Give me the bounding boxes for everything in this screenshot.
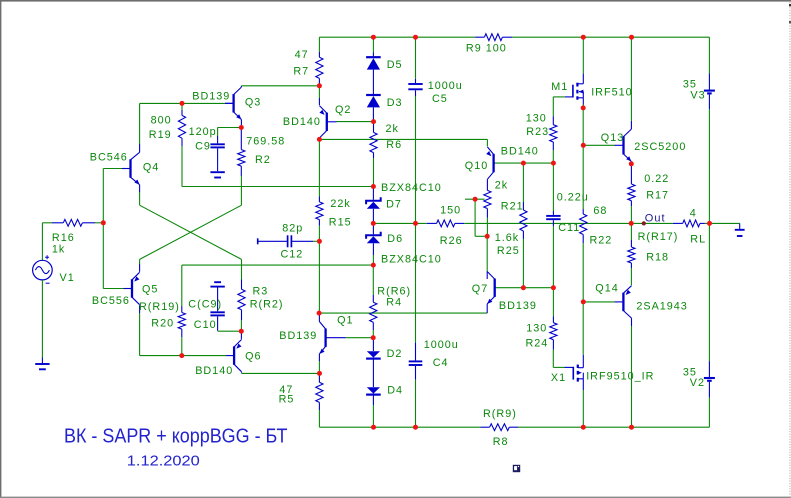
frame left border bbox=[0, 0, 1, 498]
label R(R19) bbox=[139, 301, 180, 313]
label 1.6k bbox=[495, 232, 519, 244]
wire out row left bbox=[373, 222, 427, 224]
node junction Q14 base bbox=[581, 299, 586, 304]
label BZX84C10 lower bbox=[381, 254, 442, 266]
svg-text:R4: R4 bbox=[386, 296, 402, 308]
label D7 bbox=[386, 198, 402, 210]
window icon bbox=[513, 465, 520, 472]
wire V rail middle bbox=[708, 109, 710, 361]
label C12 bbox=[281, 248, 304, 260]
wire wiper jog bbox=[475, 199, 487, 236]
label 2k R6 bbox=[386, 123, 399, 135]
mosfet M1 IRF510 bbox=[553, 37, 583, 104]
wire Q13 base bbox=[583, 144, 622, 146]
node junction top Q13 bbox=[629, 35, 634, 40]
svg-text:D5: D5 bbox=[387, 59, 403, 71]
svg-text:Q13: Q13 bbox=[601, 132, 624, 144]
label BD140 Q10 bbox=[501, 145, 539, 157]
svg-text:BC556: BC556 bbox=[92, 295, 130, 307]
label Q6 bbox=[245, 350, 261, 362]
label BC556 bbox=[92, 295, 130, 307]
resistor R20 bbox=[178, 265, 185, 356]
wire node to C9 bbox=[218, 127, 242, 129]
wire row y313 Q1 to Q7 emitter bbox=[319, 312, 487, 314]
label V3 bbox=[690, 89, 705, 101]
label 130 R23 bbox=[526, 112, 547, 124]
svg-text:R25: R25 bbox=[497, 245, 520, 257]
node junction gate-node bbox=[551, 161, 556, 166]
svg-text:47: 47 bbox=[295, 49, 309, 61]
node junction top D-chain bbox=[371, 35, 376, 40]
svg-text:82p: 82p bbox=[282, 222, 303, 234]
node junction D6 bottom bbox=[371, 263, 376, 268]
wire Q13 collector up bbox=[630, 37, 632, 129]
svg-text:2SC5200: 2SC5200 bbox=[634, 141, 686, 153]
wire Q14 collector down bbox=[631, 318, 633, 427]
label 0.22 R17 bbox=[644, 173, 669, 185]
resistor R26 bbox=[427, 220, 464, 227]
wire M1 gate down bbox=[552, 97, 554, 117]
wire R16 to node bbox=[95, 222, 103, 224]
wire Q10R21 to Q7 collector bbox=[486, 236, 488, 271]
label 4 RL bbox=[690, 207, 697, 219]
svg-text:BD140: BD140 bbox=[195, 365, 233, 377]
svg-text:R(R17): R(R17) bbox=[638, 231, 679, 243]
label R15 bbox=[329, 216, 352, 228]
wire M1src to Q13 node bbox=[582, 108, 584, 145]
wire row y186 R19bottom to D7 bbox=[182, 186, 374, 188]
svg-text:C12: C12 bbox=[281, 248, 304, 260]
wire Q2 base to node bbox=[337, 121, 374, 123]
battery V2 bbox=[704, 361, 715, 398]
svg-text:C5: C5 bbox=[432, 93, 448, 105]
node junction Q7base R25 bbox=[521, 285, 526, 290]
svg-text:Q4: Q4 bbox=[143, 161, 159, 173]
wire input node up to Q4 base bbox=[103, 169, 122, 223]
node junction Q13 emitter bbox=[629, 161, 634, 166]
resistor R19 bbox=[178, 103, 185, 186]
svg-text:R15: R15 bbox=[329, 216, 352, 228]
svg-text:R8: R8 bbox=[493, 436, 509, 448]
svg-text:BC546: BC546 bbox=[90, 152, 128, 164]
wire Q3 emitter to node bbox=[240, 120, 242, 128]
label R25 bbox=[497, 245, 520, 257]
label R9 100 bbox=[466, 42, 507, 54]
label Q7 bbox=[472, 283, 488, 295]
svg-text:D7: D7 bbox=[386, 198, 402, 210]
label M1 bbox=[551, 81, 568, 93]
svg-text:D3: D3 bbox=[387, 97, 403, 109]
label BD139 Q7 bbox=[499, 300, 537, 312]
svg-text:Q1: Q1 bbox=[337, 314, 353, 326]
svg-text:C4: C4 bbox=[433, 357, 449, 369]
wire Q4 emitter down bbox=[139, 185, 141, 206]
transistor Q1 BD139 bbox=[319, 322, 345, 354]
svg-text:R9 100: R9 100 bbox=[466, 42, 507, 54]
wire Q7 base row bbox=[496, 287, 553, 289]
transistor Q14 2SA1943 bbox=[622, 286, 631, 318]
svg-text:R7: R7 bbox=[293, 65, 309, 77]
label 35 V3 bbox=[683, 78, 697, 90]
svg-text:C9: C9 bbox=[195, 140, 211, 152]
svg-text:150: 150 bbox=[440, 204, 461, 216]
label R(R9) bbox=[483, 408, 517, 420]
wire Q5-collector to Q6 base bbox=[140, 355, 233, 357]
svg-text:2SA1943: 2SA1943 bbox=[636, 300, 687, 312]
capacitor C5 bbox=[408, 37, 422, 223]
label D6 bbox=[387, 233, 403, 245]
label Q14 bbox=[595, 283, 618, 295]
svg-text:2k: 2k bbox=[495, 179, 508, 191]
label R6 bbox=[386, 139, 402, 151]
label R16 bbox=[52, 232, 75, 244]
transistor Q7 BD139 bbox=[487, 272, 496, 304]
svg-text:R22: R22 bbox=[590, 234, 613, 246]
label Q1 bbox=[337, 314, 353, 326]
wiper R21 bbox=[465, 198, 485, 200]
resistor R9 bbox=[475, 34, 512, 41]
node junction R19 top bbox=[180, 101, 185, 106]
svg-text:R(R19): R(R19) bbox=[139, 301, 180, 313]
wire Q1 base to node bbox=[346, 337, 374, 339]
svg-text:V1: V1 bbox=[60, 272, 75, 284]
wire Q13 emitter bbox=[630, 162, 632, 164]
source V1 bbox=[33, 255, 53, 283]
transistor Q4 BC546 bbox=[122, 152, 140, 184]
svg-text:2k: 2k bbox=[386, 123, 399, 135]
wire C12node down bbox=[318, 241, 320, 313]
label Q10 bbox=[465, 160, 488, 172]
zener D7 bbox=[366, 187, 381, 224]
resistor R2 bbox=[238, 128, 245, 206]
resistor R25 1.6k bbox=[520, 163, 527, 288]
wire Q5 collector down bbox=[139, 305, 141, 355]
svg-text:BD140: BD140 bbox=[283, 116, 321, 128]
page boundary dashed line bbox=[789, 2, 791, 498]
svg-text:R16: R16 bbox=[52, 232, 75, 244]
label R18 bbox=[646, 251, 669, 263]
transistor Q10 BD140 bbox=[486, 147, 495, 179]
svg-text:Q7: Q7 bbox=[472, 283, 488, 295]
svg-text:R17: R17 bbox=[646, 189, 669, 201]
svg-text:R24: R24 bbox=[526, 337, 549, 349]
label 800 bbox=[151, 114, 172, 126]
label 47 R7 bbox=[295, 49, 309, 61]
svg-text:IRF510: IRF510 bbox=[591, 86, 632, 98]
label R24 bbox=[526, 337, 549, 349]
node junction Q2 base / R6 top bbox=[371, 119, 376, 124]
svg-text:M1: M1 bbox=[551, 81, 568, 93]
transistor Q13 2SC5200 bbox=[622, 129, 631, 161]
label Out bbox=[645, 212, 666, 224]
node junction top C5 bbox=[413, 35, 418, 40]
svg-text:R18: R18 bbox=[646, 251, 669, 263]
label R23 bbox=[526, 126, 549, 138]
wire D5-D3 bbox=[372, 70, 374, 94]
resistor R15 bbox=[316, 197, 323, 242]
wire Q4 collector up bbox=[140, 103, 182, 152]
resistor R3 bbox=[238, 259, 245, 331]
wire Q6 emitter bbox=[240, 331, 242, 339]
svg-text:R19: R19 bbox=[149, 129, 172, 141]
node junction M1 source bbox=[581, 105, 586, 110]
capacitor C9 bbox=[210, 128, 224, 167]
wire cross diagonal A bbox=[140, 205, 242, 259]
svg-text:0.22u: 0.22u bbox=[557, 191, 589, 203]
svg-text:R21: R21 bbox=[501, 200, 524, 212]
resistor R6 bbox=[370, 122, 377, 187]
node junction Q1 collector bbox=[317, 311, 322, 316]
node junction C-col out-row bbox=[413, 221, 418, 226]
label 68 bbox=[593, 205, 607, 217]
svg-text:4: 4 bbox=[690, 207, 697, 219]
node junction C12 bbox=[317, 239, 322, 244]
wire D2-D4 bbox=[372, 359, 374, 387]
label R7 bbox=[293, 65, 309, 77]
label C10 bbox=[194, 319, 217, 331]
label 2k R21 bbox=[495, 179, 508, 191]
resistor R22 68 bbox=[580, 145, 587, 354]
svg-text:BZX84C10: BZX84C10 bbox=[381, 182, 442, 194]
wire input node down to Q5 base bbox=[103, 223, 123, 289]
title text bbox=[64, 425, 288, 447]
svg-text:130: 130 bbox=[526, 322, 547, 334]
label BD140 Q2 bbox=[283, 116, 321, 128]
svg-text:R(R2): R(R2) bbox=[250, 298, 284, 310]
resistor R17 bbox=[628, 164, 635, 224]
svg-text:BD139: BD139 bbox=[279, 330, 317, 342]
label D2 bbox=[387, 348, 403, 360]
label V1 bbox=[60, 272, 75, 284]
label Q13 bbox=[601, 132, 624, 144]
wire out row to RL bbox=[631, 222, 673, 224]
wire top rail left segment bbox=[319, 36, 475, 38]
svg-text:1.12.2020: 1.12.2020 bbox=[127, 452, 200, 469]
label 1000u C5 bbox=[428, 80, 463, 92]
diode D2 bbox=[366, 338, 381, 359]
node junction R21 bottom bbox=[485, 234, 490, 239]
label R4 bbox=[386, 296, 402, 308]
wire M1 source to node bbox=[582, 105, 584, 108]
svg-text:R2: R2 bbox=[255, 154, 271, 166]
label 47 R5 bbox=[279, 384, 293, 396]
label R(R2) bbox=[250, 298, 284, 310]
svg-text:V2: V2 bbox=[690, 377, 705, 389]
wire C10 to node bbox=[218, 330, 242, 332]
label C4 bbox=[433, 357, 449, 369]
label 120p bbox=[189, 126, 217, 138]
wire V3 top lead bbox=[708, 37, 710, 73]
svg-text:1.6k: 1.6k bbox=[495, 232, 519, 244]
wire Q3 collector bbox=[241, 86, 319, 87]
label 0.22u bbox=[557, 191, 589, 203]
node junction out-rail bbox=[707, 221, 712, 226]
label 35 V2 bbox=[683, 366, 697, 378]
node junction R20 bottom bbox=[179, 353, 184, 358]
wire Q7 coll lead bbox=[486, 271, 488, 279]
wire out row middle bbox=[464, 222, 631, 224]
label R(R17) bbox=[638, 231, 679, 243]
label D3 bbox=[387, 97, 403, 109]
wire V2 bottom lead bbox=[708, 398, 710, 428]
node junction top M1 bbox=[581, 35, 586, 40]
label C9 bbox=[195, 140, 211, 152]
svg-text:769.58: 769.58 bbox=[246, 135, 285, 147]
label BD139 Q1 bbox=[279, 330, 317, 342]
label R(R6) bbox=[377, 285, 411, 297]
resistor R4 bbox=[370, 265, 377, 338]
node junction R5 top bbox=[317, 371, 322, 376]
label R26 bbox=[440, 235, 463, 247]
svg-text:C10: C10 bbox=[194, 319, 217, 331]
label R19 bbox=[149, 129, 172, 141]
svg-text:C11: C11 bbox=[558, 222, 580, 234]
svg-text:1000u: 1000u bbox=[424, 339, 459, 351]
ground V1 bbox=[35, 358, 49, 370]
capacitor C10 with top ground bbox=[210, 282, 224, 331]
svg-text:R3: R3 bbox=[253, 285, 269, 297]
label R20 bbox=[151, 317, 174, 329]
label 769.58 bbox=[246, 135, 285, 147]
label Q3 bbox=[245, 96, 261, 108]
node junction R4 bottom / Q1 base bbox=[371, 335, 376, 340]
svg-text:C(C9): C(C9) bbox=[188, 299, 222, 311]
label V2 bbox=[690, 377, 705, 389]
node junction R7 bottom bbox=[317, 83, 322, 88]
resistor R5 bbox=[316, 373, 323, 427]
svg-text:Out: Out bbox=[645, 212, 666, 224]
label R22 bbox=[590, 234, 613, 246]
label R2 bbox=[255, 154, 271, 166]
wire Q6 collector bbox=[242, 372, 320, 373]
svg-text:R23: R23 bbox=[526, 126, 549, 138]
label Q5 bbox=[142, 283, 158, 295]
label R3 bbox=[253, 285, 269, 297]
label RL bbox=[690, 233, 706, 245]
ground C9 bbox=[210, 167, 224, 178]
node junction R6 bottom / D7 top bbox=[371, 184, 376, 189]
wire bottom rail right segment bbox=[518, 426, 709, 428]
svg-text:R(R9): R(R9) bbox=[483, 408, 517, 420]
resistor R16 bbox=[52, 219, 95, 226]
label R17 bbox=[646, 189, 669, 201]
node junction bottom D-chain bbox=[371, 425, 376, 430]
node marker Out bbox=[642, 221, 646, 225]
svg-text:Q3: Q3 bbox=[245, 96, 261, 108]
resistor RL bbox=[673, 220, 705, 227]
label C(C9) bbox=[188, 299, 222, 311]
wire Q14 base bbox=[583, 301, 622, 303]
wire Q2coll to Q10 emitter row bbox=[319, 139, 487, 146]
svg-text:R20: R20 bbox=[151, 317, 174, 329]
node junction bottom X1 bbox=[581, 425, 586, 430]
date text bbox=[127, 452, 200, 469]
wire Q1coll lead bbox=[318, 313, 320, 321]
svg-text:800: 800 bbox=[151, 114, 172, 126]
label Q4 bbox=[143, 161, 159, 173]
wire Q3 base bbox=[182, 102, 232, 104]
transistor Q5 BC556 bbox=[124, 272, 140, 304]
wire Q7 emitter lead bbox=[486, 304, 488, 313]
svg-text:Q2: Q2 bbox=[335, 104, 351, 116]
node junction Q2 collector bbox=[317, 137, 322, 142]
svg-text:R6: R6 bbox=[386, 139, 402, 151]
label BZX84C10 upper bbox=[381, 182, 442, 194]
svg-text:Q6: Q6 bbox=[245, 350, 261, 362]
svg-text:D6: D6 bbox=[387, 233, 403, 245]
ground output bbox=[735, 223, 745, 236]
node junction input bbox=[101, 220, 106, 225]
svg-text:Q5: Q5 bbox=[142, 283, 158, 295]
resistor R21 2k bbox=[484, 179, 491, 236]
svg-text:IRF9510_IR: IRF9510_IR bbox=[586, 370, 654, 382]
label X1 bbox=[551, 372, 566, 384]
resistor R23 bbox=[550, 117, 557, 164]
svg-text:68: 68 bbox=[593, 205, 607, 217]
label 82p bbox=[282, 222, 303, 234]
diode D5 bbox=[366, 57, 381, 69]
capacitor C4 bbox=[409, 223, 423, 427]
node junction Q6 base node bbox=[239, 329, 244, 334]
label 1k bbox=[52, 243, 65, 255]
resistor R8 bbox=[481, 424, 519, 431]
resistor R7 bbox=[316, 37, 323, 86]
label 2SA1943 bbox=[636, 300, 687, 312]
wire cross diagonal B bbox=[140, 205, 242, 259]
svg-text:D4: D4 bbox=[387, 384, 403, 396]
svg-text:BD139: BD139 bbox=[499, 300, 537, 312]
svg-text:1k: 1k bbox=[52, 243, 65, 255]
svg-text:130: 130 bbox=[526, 112, 547, 124]
node junction D7-D6 / out-row left bbox=[371, 221, 376, 226]
label 150 bbox=[440, 204, 461, 216]
wire to Q5 emitter bbox=[139, 259, 141, 271]
label BD140 Q6 bbox=[195, 365, 233, 377]
svg-text:Q14: Q14 bbox=[595, 283, 618, 295]
wire Q10 base to R23 node bbox=[495, 162, 553, 164]
wire RL to rail and ground bbox=[705, 222, 740, 224]
label IRF9510_IR bbox=[586, 370, 654, 382]
svg-text:1000u: 1000u bbox=[428, 80, 463, 92]
label D4 bbox=[387, 384, 403, 396]
label D5 bbox=[387, 59, 403, 71]
zener D6 bbox=[366, 223, 381, 265]
frame top border bbox=[0, 0, 791, 2]
svg-text:ВК - SAPR + коррBGG - БТ: ВК - SAPR + коррBGG - БТ bbox=[64, 425, 288, 447]
mosfet X1 IRF9510 bbox=[553, 355, 583, 427]
node junction bottom C4 bbox=[413, 425, 418, 430]
battery V3 bbox=[704, 73, 715, 109]
node junction R25 top bbox=[521, 161, 526, 166]
label C5 bbox=[432, 93, 448, 105]
svg-text:22k: 22k bbox=[330, 198, 350, 210]
label R5 bbox=[279, 393, 295, 405]
label IRF510 bbox=[591, 86, 632, 98]
label 130 R24 bbox=[526, 322, 547, 334]
capacitor C12 bbox=[258, 235, 320, 247]
capacitor C11 bbox=[546, 163, 560, 288]
diode D4 bbox=[366, 387, 381, 427]
wire top rail right segment bbox=[512, 36, 709, 38]
label C11 bbox=[558, 222, 580, 234]
wire D5 top lead bbox=[372, 37, 374, 56]
wire feedback row bbox=[182, 264, 373, 266]
svg-text:120p: 120p bbox=[189, 126, 217, 138]
transistor Q6 BD140 bbox=[234, 339, 242, 371]
resistor R18 bbox=[628, 223, 635, 285]
node junction Q7base C11col bbox=[551, 285, 556, 290]
label 1000u C4 bbox=[424, 339, 459, 351]
